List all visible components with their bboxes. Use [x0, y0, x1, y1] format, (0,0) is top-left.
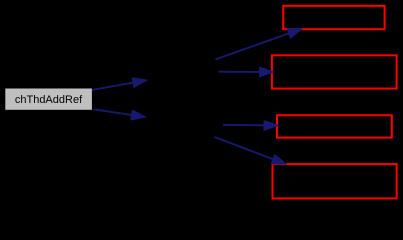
svg-text:chThdAddRef: chThdAddRef: [15, 94, 83, 106]
